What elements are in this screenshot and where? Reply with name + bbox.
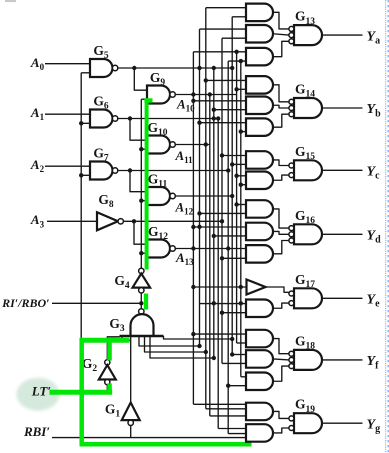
nand G10 (147, 136, 170, 154)
wire bus v11 (240, 61, 242, 377)
junction v5 at b2 lower (212, 108, 216, 112)
wire output Ye (322, 297, 363, 299)
junction v10 at d1 feed (234, 202, 238, 206)
bubble G2 output (105, 360, 110, 365)
wire feed v8 to f3 lower (228, 385, 246, 387)
junction bus dot 14 (239, 285, 243, 289)
and gate c2 (246, 172, 273, 190)
wire b1 output to G14 (273, 85, 289, 102)
wire G4 output net vertical (140, 99, 142, 271)
and gate d3 (246, 245, 273, 263)
and gate f3 (246, 373, 273, 391)
junction v5 at d2 feed (212, 234, 216, 238)
junction RI/RBO at G4-G3 (139, 301, 143, 305)
wire feed v10 to b1 lower (237, 88, 246, 90)
junction G6out to G10 feed (128, 116, 132, 120)
nand G13 (294, 25, 322, 45)
svg-text:Yc: Yc (367, 165, 381, 182)
junction G7out to G11 feed (128, 168, 132, 172)
nand G16 (294, 224, 322, 244)
wire G4net to G10 lower input (141, 148, 147, 150)
wire G3 input stub s1 to LT net (121, 336, 123, 340)
junction v8 at f3 lower (226, 384, 230, 388)
and gate b1 (246, 76, 273, 94)
and gate b3 (246, 118, 273, 135)
svg-text:LT′: LT′ (31, 384, 52, 399)
wire A0 input (45, 63, 90, 65)
wire G4net to G12 lower input (141, 252, 147, 254)
wire G2 output to G3 bar (107, 337, 119, 360)
wire d3 output to G16 (273, 241, 289, 254)
svg-text:G2: G2 (82, 356, 98, 374)
wire G4net to G9 lower input (141, 98, 147, 100)
and gate d1 (246, 200, 273, 218)
svg-text:G4: G4 (114, 273, 130, 291)
wire feed v7 to d3 input 1 (222, 257, 246, 259)
nand G14 (294, 98, 322, 118)
wire output Yg (322, 422, 363, 424)
svg-text:A12: A12 (175, 200, 194, 217)
junction bus dot 10 (230, 194, 234, 198)
and gate c1 (246, 151, 273, 169)
svg-text:A1: A1 (30, 105, 45, 122)
wire G4 input from junction (140, 293, 142, 309)
bubble G5 output (112, 65, 117, 70)
junction v2 at b3 feed (197, 121, 201, 125)
svg-text:G1: G1 (105, 402, 121, 420)
bubble G9 output (170, 92, 175, 97)
junction v10 at b1 lower (234, 87, 238, 91)
junction bus dot 12 (212, 301, 216, 305)
wire e2 output to G17 (273, 303, 289, 308)
junction bus dot 18 (230, 337, 234, 341)
and gate e2 (246, 300, 273, 318)
svg-text:A13: A13 (175, 250, 194, 267)
svg-text:Yd: Yd (367, 229, 382, 246)
wire bus v3 bottom bend (206, 408, 246, 410)
wire a2 output to G13 (273, 34, 289, 35)
wire RBI input to g2 lower input (52, 437, 246, 439)
inverter G8 (97, 212, 118, 230)
wire feed v1 to f1 top (193, 333, 246, 335)
wire g1 output to G19 (273, 411, 289, 418)
wire highlight below G4 (green) (144, 294, 148, 310)
and gate b2 (246, 97, 273, 115)
wire A12 output (175, 195, 232, 197)
wire bus v7 bottom bend to f2 lower (222, 362, 246, 364)
wire bus v7 (221, 38, 223, 363)
bubble G1 input (128, 420, 133, 425)
wire G7out down to G11 top input (130, 171, 147, 192)
wire bus v1 top bend to a3 top (193, 51, 246, 53)
wire A10 output (175, 94, 236, 96)
nand G15 (294, 160, 322, 180)
wire f1 output to G18 (273, 339, 289, 354)
junction v11 at b3 lower (239, 129, 243, 133)
wire A11 output (175, 144, 210, 146)
nand G18 (294, 350, 322, 370)
and gate f1 (246, 330, 273, 348)
wire feed v2 to d1 input 1 (200, 212, 247, 214)
wire bus v4 bottom bend to g1 lower (210, 415, 246, 417)
bubble G3 output (139, 309, 144, 314)
wire bus v8 bottom bend (228, 433, 246, 435)
wire highlight LT horizontal (green) (50, 390, 113, 395)
junction bus dot 16 (204, 350, 208, 354)
wire bus v9 top bend to a1 lower (232, 16, 246, 18)
wire G4net to G11 lower input (141, 200, 147, 202)
wire bus v6 (217, 119, 219, 429)
nand G6 (90, 110, 113, 128)
bubble G4 output (139, 268, 144, 273)
junction LT net at G6 (79, 121, 83, 125)
node LT highlight circle (17, 378, 60, 411)
wire feed v10 to c2 input 0 (237, 175, 246, 177)
junction v7 at e2 feed (220, 311, 224, 315)
wire d1 output to G16 (273, 209, 289, 228)
bubble G2 input (105, 380, 110, 385)
wire LT branch up (81, 340, 83, 392)
junction v7 at d3 feed (220, 256, 224, 260)
wire bus v3 top bend to a1 top (206, 7, 246, 9)
wire feed v11 to b3 lower (241, 131, 246, 133)
wire highlight G9 input cap (green) (144, 98, 152, 102)
wire G5 second input (81, 72, 90, 74)
wire bus v3 (205, 8, 207, 409)
junction v4 at A10 (208, 92, 212, 96)
wire feed v1 to b2 input 0 (193, 100, 246, 102)
and gate g1 (246, 403, 273, 421)
inverter G1 (122, 403, 140, 421)
and gate d2 (246, 223, 273, 241)
svg-text:RI′/RBO′: RI′/RBO′ (1, 296, 49, 310)
junction G4net at G12 (139, 251, 143, 255)
nand G11 (147, 187, 170, 205)
wire bus v1 (192, 52, 194, 405)
wire buffer e1 output (266, 287, 289, 292)
junction bus dot 9 (204, 142, 208, 146)
wire LT input (50, 391, 107, 393)
bubble G12 output (170, 246, 175, 251)
wire LT net vertical to G5/G6/G7 (80, 73, 82, 341)
svg-text:A0: A0 (30, 55, 45, 72)
wire bus v10 (236, 52, 238, 343)
wire e2 top input from bus (200, 303, 247, 305)
svg-text:Yb: Yb (367, 102, 382, 119)
junction v3 at b1 feed (204, 78, 208, 82)
wire RI/RBO input (52, 302, 141, 304)
wire bus v7 top bend to a2 lower (222, 37, 246, 39)
junction bus dot 17 (212, 356, 216, 360)
bubble G6 output (112, 116, 117, 121)
junction bus dot 7 (226, 168, 230, 172)
svg-text:Ya: Ya (367, 29, 381, 46)
wire bus v8 top bend to a3 lower (228, 60, 246, 62)
and gate a3 (246, 48, 273, 66)
wire feed v2 to b3 input 0 (200, 122, 247, 124)
wire highlight G4net (green) (145, 98, 149, 269)
wire bus v8 (227, 61, 229, 434)
wire G3 input s5 (150, 336, 214, 358)
svg-text:A3: A3 (30, 212, 45, 229)
junction v1 at buffer line (191, 285, 195, 289)
wire G7 output to bus (118, 170, 229, 172)
page artifact top-left mark (5, 0, 16, 2)
wire output Yd (322, 233, 363, 235)
wire bus v6 bottom bend to g2 top (218, 428, 246, 430)
and gate a1 (246, 4, 273, 22)
wire G3 input s3 (139, 336, 200, 346)
wire A3 input (47, 220, 97, 222)
bubble G10 output (170, 142, 175, 147)
svg-text:G3: G3 (109, 316, 125, 334)
wire G2 input from LT (106, 385, 108, 393)
wire output Yb (322, 107, 363, 109)
wire G3 input s4 (145, 336, 206, 352)
junction bus dot 4 (230, 66, 234, 70)
junction G5out to G9 feed (132, 66, 136, 70)
wire bus v1 bottom bend to g1 top (193, 403, 246, 405)
and gate f2 (246, 350, 273, 368)
wire bus v4 (209, 95, 211, 416)
junction G8out to G12 feed (132, 219, 136, 223)
wire output Yc (322, 169, 363, 171)
wire a1 output to G13 (273, 12, 289, 29)
junction bus dot 6 (212, 116, 216, 120)
bubble G7 output (112, 168, 117, 173)
junction v5 at G5 out (212, 66, 216, 70)
junction bus dot 19 (197, 225, 201, 229)
wire b3 output to G14 (273, 114, 289, 127)
junction G4net at G10 (139, 147, 143, 151)
junction bus dot 1 (191, 92, 195, 96)
junction v11 at c2 feed (239, 183, 243, 187)
wire G6 output to bus (118, 118, 219, 120)
nand G5 (90, 59, 112, 77)
wire highlight G2 upper (green) (107, 341, 112, 361)
wire G6out down to G10 top input (130, 119, 147, 141)
bubble G8 output (118, 219, 123, 224)
wire highlight G3 feed horizontal (green) (80, 338, 130, 343)
wire G3 input s6 (164, 336, 233, 339)
wire G8out down to G12 top input (134, 221, 147, 244)
wire feed v5 to d2 input 1 (214, 235, 246, 237)
junction v2 at d1 feed (197, 211, 201, 215)
wire G3 input bar (120, 335, 164, 338)
wire G5 output to bus (118, 67, 233, 69)
wire bus v10 bottom bend to f1 lower (237, 342, 246, 344)
svg-text:A2: A2 (30, 157, 45, 174)
page artifact blue dashed rule edge (387, 0, 389, 453)
wire bus v5 (213, 68, 215, 358)
junction bus dot 8 (220, 219, 224, 223)
junction v10 at a3 top line (234, 50, 238, 54)
junction v7 at c1 feed (220, 153, 224, 157)
junction v11 at a3 lower line (239, 59, 243, 63)
wire c1 output to G15 (273, 160, 289, 166)
wire feed v10 to d1 input 0 (237, 204, 246, 206)
wire d2 output to G16 (273, 231, 289, 234)
wire feed v7 to e2 input 1 (222, 312, 246, 314)
wire bus v2 top bend to a2 top (200, 28, 247, 30)
wire feed v9 to c1 input 1 (232, 163, 246, 165)
junction LT net at G7 (79, 173, 83, 177)
wire A2 input (45, 165, 90, 167)
wire highlight G2 lower (green) (107, 384, 112, 395)
inverter G2 (99, 365, 116, 380)
wire A13 output to d3 top input (175, 248, 246, 250)
wire buffer e1 input from v1 (193, 286, 246, 288)
wire feed v11 to c2 input 1 (241, 184, 246, 186)
wire c2 output to G15 (273, 175, 289, 180)
nand G9 (147, 86, 170, 104)
wire output Yf (322, 359, 363, 361)
svg-text:RBI′: RBI′ (23, 424, 50, 439)
wire G1 input from RBI (130, 426, 132, 438)
junction v9 at c1 feed (230, 162, 234, 166)
nand G7 (90, 162, 113, 180)
junction bus dot 2 (191, 246, 195, 250)
wire feed v7 to c1 input 0 (222, 155, 246, 157)
svg-text:Yf: Yf (367, 354, 380, 371)
inverter G4 (133, 274, 151, 288)
svg-text:A11: A11 (175, 148, 194, 165)
wire bus v2 (199, 29, 201, 346)
svg-text:Yg: Yg (367, 417, 381, 434)
bubble G11 output (170, 193, 175, 198)
junction bus dot 15 (197, 344, 201, 348)
wire G1 output to G3 bar (130, 336, 132, 403)
wire highlight LT branch down (green) (79, 338, 84, 444)
wire A1 input (45, 113, 90, 115)
wire feed v3 to b1 input 0 (206, 79, 246, 81)
and gate g2 (246, 424, 273, 442)
junction bus dot 3 (197, 66, 201, 70)
wire f2 output to G18 (273, 358, 289, 361)
buffer e1 (247, 280, 266, 295)
wire LT branch to G3 (82, 339, 130, 341)
nand G17 (294, 288, 322, 308)
junction G4net at G11 (139, 199, 143, 203)
junction v1 at b2 feed (191, 99, 195, 103)
junction v1 at d2 feed (191, 225, 195, 229)
wire feed v5 to b2 lower (214, 109, 246, 111)
bubble G4 input (139, 288, 144, 293)
nand G19 (294, 413, 322, 433)
wire feed v9 to f2 input 0 (232, 354, 246, 356)
wire G5out down to G9 top input (134, 68, 147, 90)
junction bus dot 13 (239, 301, 243, 305)
svg-text:G8: G8 (98, 192, 114, 210)
wire a3 output to G13 (273, 41, 289, 56)
junction bus dot 5 (216, 116, 220, 120)
wire G7 second input (81, 174, 90, 176)
wire b2 output to G14 (273, 105, 289, 108)
wire bus v11 bottom bend to f3 top (241, 376, 246, 378)
and gate a2 (246, 25, 273, 43)
wire feed v1 to d2 input 0 (193, 226, 246, 228)
junction bus dot 11 (226, 246, 230, 250)
wire G8 output to bus (123, 220, 222, 222)
wire bus v9 (231, 17, 233, 355)
junction v9 at f2 feed (230, 352, 234, 356)
wire f3 output to G18 (273, 366, 289, 381)
nand G12 (147, 240, 170, 258)
junction v10 at c2 feed (234, 174, 238, 178)
page artifact blue dashed rule (385, 0, 387, 453)
svg-text:Ye: Ye (367, 293, 381, 310)
junction v1 at f1 top (191, 332, 195, 336)
wire highlight bottom run (green) (80, 442, 252, 447)
wire output Ya (322, 34, 363, 36)
wire g2 output to G19 (273, 428, 289, 433)
and G3 (131, 314, 154, 335)
wire G6 second input (81, 122, 90, 124)
